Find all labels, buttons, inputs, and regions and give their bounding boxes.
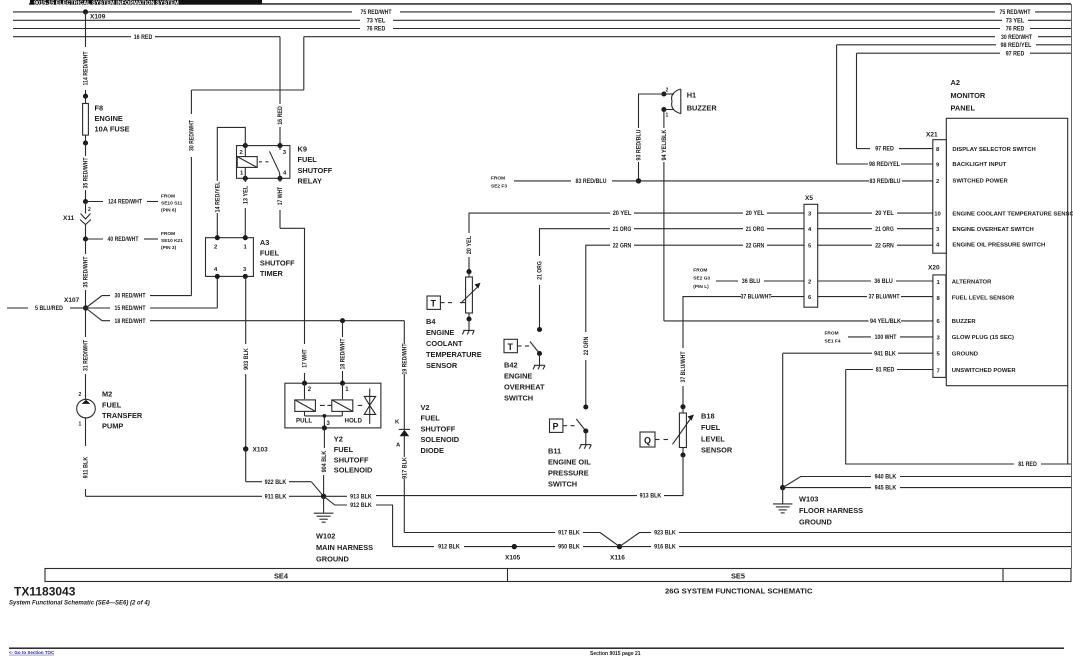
svg-text:DISPLAY SELECTOR SWITCH: DISPLAY SELECTOR SWITCH	[952, 147, 1035, 153]
svg-text:SE2 G3: SE2 G3	[693, 276, 710, 282]
junction 18 RED/WHT drop to Y2 pin 1	[340, 318, 347, 383]
svg-text:20 YEL: 20 YEL	[613, 211, 632, 217]
svg-text:X20: X20	[928, 265, 940, 272]
wire 97 RED (bus line 6)	[857, 51, 1072, 57]
svg-text:SE10 S11: SE10 S11	[161, 201, 183, 207]
wire 75 RED/WHT (bus line 1)	[13, 10, 1071, 16]
svg-text:DIODE: DIODE	[421, 446, 444, 455]
svg-text:TEMPERATURE: TEMPERATURE	[426, 350, 482, 359]
wire 22 GRN (B11 to X5 pin 5 to X21 pin 4)	[584, 243, 933, 407]
W103 label	[799, 495, 863, 527]
monitor panel A2 box	[946, 78, 1067, 386]
svg-text:13 YEL: 13 YEL	[244, 185, 250, 204]
K9 label	[298, 145, 333, 186]
M2 label	[102, 390, 143, 431]
svg-text:2: 2	[666, 88, 669, 94]
sensor B4	[427, 269, 481, 334]
svg-text:911 BLK: 911 BLK	[265, 494, 287, 500]
W102 label	[316, 532, 373, 564]
wire 114 RED/WHT (X109 down to fuse F8)	[84, 12, 90, 96]
svg-text:SENSOR: SENSOR	[701, 446, 733, 455]
svg-text:<- Go to Section TOC: <- Go to Section TOC	[9, 650, 55, 655]
svg-text:B18: B18	[701, 412, 715, 421]
wire 94 YEL/BLK (H1 pin 1 to X20 pin 6)	[662, 110, 933, 326]
svg-text:SE5: SE5	[731, 572, 745, 581]
svg-text:FUEL: FUEL	[298, 155, 318, 164]
svg-text:912 BLK: 912 BLK	[438, 545, 460, 551]
svg-text:911 BLK: 911 BLK	[84, 456, 90, 478]
svg-text:MONITOR: MONITOR	[951, 91, 986, 100]
junction 124 RED/WHT	[83, 194, 183, 214]
svg-text:GROUND: GROUND	[799, 517, 833, 526]
FROM SE1 F4 note	[825, 330, 841, 344]
svg-text:B11: B11	[548, 447, 561, 456]
ground W102	[314, 494, 334, 523]
H1 label	[687, 91, 718, 113]
wire 16 RED (bus line 4 left segment, drops to K9 pin 3)	[13, 35, 280, 41]
svg-text:P: P	[553, 422, 559, 432]
svg-text:922 BLK: 922 BLK	[265, 480, 287, 486]
svg-text:98 RED/YEL: 98 RED/YEL	[869, 162, 900, 168]
svg-text:FROM: FROM	[161, 194, 175, 200]
svg-text:17 WHT: 17 WHT	[278, 186, 284, 205]
relay K9	[237, 143, 290, 181]
svg-text:2: 2	[79, 392, 82, 398]
pump M2	[77, 392, 96, 428]
wire 30 RED/WHT (bus line 4 right segment)	[304, 35, 1071, 41]
wire 941 BLK (X20 pin 5 to W103)	[783, 351, 933, 487]
svg-text:26G SYSTEM FUNCTIONAL SCHEMATI: 26G SYSTEM FUNCTIONAL SCHEMATIC	[665, 587, 813, 596]
svg-text:PRESSURE: PRESSURE	[548, 469, 589, 478]
diode V2	[395, 420, 410, 449]
svg-text:913 BLK: 913 BLK	[350, 494, 372, 500]
footer rule	[9, 647, 1064, 649]
svg-text:15 RED/WHT: 15 RED/WHT	[115, 306, 146, 312]
svg-text:FUEL: FUEL	[102, 400, 122, 409]
B18 label	[701, 412, 733, 455]
wire 16 RED (bus down to K9 pin 3)	[278, 37, 284, 146]
svg-text:FUEL: FUEL	[421, 414, 441, 423]
svg-text:System Functional Schematic (S: System Functional Schematic (SE4—SE6) (2…	[9, 601, 150, 607]
svg-text:941 BLK: 941 BLK	[874, 351, 896, 357]
svg-text:21 ORG: 21 ORG	[538, 261, 544, 280]
wire 5 BLU/RED (left entry to X107)	[7, 306, 86, 312]
svg-text:76 RED: 76 RED	[367, 27, 386, 33]
svg-text:ENGINE COOLANT TEMPERATURE SEN: ENGINE COOLANT TEMPERATURE SENSOR	[952, 211, 1073, 217]
svg-text:UNSWITCHED POWER: UNSWITCHED POWER	[952, 368, 1017, 374]
svg-text:X116: X116	[610, 555, 625, 562]
wire 35 RED/WHT (fuse to X11)	[84, 143, 90, 202]
svg-text:T: T	[508, 342, 514, 352]
svg-text:37 BLU/WHT: 37 BLU/WHT	[741, 295, 772, 301]
wire 20 YEL (B4 to X5 pin 3 to X21 pin 10)	[467, 211, 933, 272]
svg-text:B42: B42	[504, 361, 518, 370]
svg-text:X5: X5	[805, 195, 813, 202]
wire 917 BLK (diode to X116 line)	[403, 436, 601, 536]
node X116	[600, 533, 640, 562]
svg-text:T: T	[431, 299, 437, 309]
svg-text:M2: M2	[102, 390, 112, 399]
svg-text:37 BLU/WHT: 37 BLU/WHT	[869, 295, 900, 301]
wire 98 RED/YEL (bus line 5)	[837, 43, 1071, 49]
svg-text:923 BLK: 923 BLK	[654, 531, 676, 537]
svg-text:30 RED/WHT: 30 RED/WHT	[190, 120, 196, 151]
svg-text:LEVEL: LEVEL	[701, 434, 725, 443]
svg-text:124 RED/WHT: 124 RED/WHT	[108, 200, 142, 206]
svg-text:(PIN 6): (PIN 6)	[161, 208, 177, 214]
Y2 PULL coil	[295, 400, 316, 412]
svg-text:SHUTOFF: SHUTOFF	[298, 166, 333, 175]
svg-text:OVERHEAT: OVERHEAT	[504, 383, 545, 392]
svg-text:H1: H1	[687, 91, 696, 100]
wire 923 BLK (X116 up right)	[640, 531, 1072, 537]
wire 97 RED (bus to X21 pin 8)	[857, 53, 933, 153]
svg-text:FROM: FROM	[825, 330, 839, 336]
A3 label	[260, 238, 295, 278]
wire 13 YEL (K9 pin 1 to A3 pin 1)	[244, 178, 250, 237]
ground W103	[773, 485, 792, 513]
connector X21	[926, 132, 946, 254]
svg-text:SOLENOID: SOLENOID	[421, 435, 460, 444]
svg-text:9015-15 ELECTRICAL SYSTEM INFO: 9015-15 ELECTRICAL SYSTEM INFORMATION SY…	[34, 0, 179, 6]
svg-text:PANEL: PANEL	[951, 104, 976, 113]
svg-text:SWITCH: SWITCH	[548, 480, 577, 489]
wire 81 RED (X20 pin 7 to right edge)	[846, 368, 1071, 469]
V2 label	[421, 403, 460, 455]
fuse F8 10A	[83, 94, 130, 146]
wire 18 RED/WHT (X107 to Y2/V2)	[86, 308, 405, 325]
svg-text:2: 2	[88, 207, 91, 213]
svg-text:114 RED/WHT: 114 RED/WHT	[84, 51, 90, 85]
wire 35 RED/WHT (X11 to X107)	[84, 239, 90, 308]
svg-text:1: 1	[79, 422, 82, 428]
svg-text:GROUND: GROUND	[316, 554, 350, 563]
svg-text:SOLENOID: SOLENOID	[334, 466, 373, 475]
svg-text:83 RED/BLU: 83 RED/BLU	[576, 179, 607, 185]
wire 98 RED/YEL (bus to X21 pin 9)	[837, 45, 933, 168]
svg-text:22 GRN: 22 GRN	[875, 243, 894, 249]
node X103	[243, 446, 268, 453]
wire 37 BLU/WHT (B18 to X5 pin 6 to X20 pin 8)	[681, 295, 933, 407]
connector X11	[63, 202, 91, 240]
wire 19 RED/WHT (down to diode V2)	[403, 321, 409, 430]
wire 904 BLK (Y2 pin 3 to W102 junction)	[322, 428, 328, 496]
svg-text:917 BLK: 917 BLK	[558, 531, 580, 537]
svg-text:10A FUSE: 10A FUSE	[95, 125, 130, 134]
svg-text:GROUND: GROUND	[952, 352, 978, 358]
solenoid Y2	[285, 381, 381, 431]
node X107	[64, 297, 88, 311]
svg-text:17 WHT: 17 WHT	[303, 349, 309, 368]
svg-text:94 YEL/BLK: 94 YEL/BLK	[662, 129, 668, 161]
svg-text:ENGINE: ENGINE	[95, 114, 123, 123]
svg-text:917 BLK: 917 BLK	[403, 457, 409, 479]
svg-text:Section 9015 page 21: Section 9015 page 21	[590, 651, 641, 657]
svg-text:76 RED: 76 RED	[1006, 27, 1025, 33]
wire 30 RED/WHT (X107 up to bus)	[86, 37, 304, 308]
B11 label	[548, 447, 591, 489]
svg-text:A3: A3	[260, 238, 269, 247]
switch B11	[550, 404, 592, 448]
svg-text:TRANSFER: TRANSFER	[102, 411, 143, 420]
Y2 dashes	[320, 404, 325, 406]
FROM SE2 G3 note	[693, 268, 710, 290]
svg-text:X11: X11	[63, 215, 75, 222]
svg-text:36 BLU: 36 BLU	[742, 279, 761, 285]
svg-text:X103: X103	[253, 447, 269, 454]
svg-text:SWITCH: SWITCH	[504, 394, 533, 403]
svg-text:73 YEL: 73 YEL	[367, 18, 386, 24]
svg-text:35 RED/WHT: 35 RED/WHT	[84, 256, 90, 287]
Y2 valve symbol	[364, 396, 375, 414]
svg-text:Q: Q	[644, 436, 651, 446]
svg-text:100 WHT: 100 WHT	[875, 335, 897, 341]
svg-text:98 RED/YEL: 98 RED/YEL	[1001, 43, 1032, 49]
wire 903 BLK (A3 pin 3 down to X103)	[244, 276, 250, 449]
wire 36 BLU (SE2 G3 to X5 pin 2 to X20 pin 1)	[716, 279, 933, 285]
svg-text:904 BLK: 904 BLK	[322, 450, 328, 472]
X20 pin function labels	[952, 280, 1017, 374]
svg-text:SE2 F3: SE2 F3	[491, 184, 507, 190]
svg-text:83 RED/BLU: 83 RED/BLU	[870, 179, 901, 185]
switch B42	[504, 327, 545, 369]
wire 31 RED/WHT (X107 down to M2)	[84, 308, 90, 400]
wire 945 BLK (W103 to right edge)	[783, 486, 1071, 492]
svg-text:FUEL: FUEL	[701, 423, 721, 432]
wire 93 RED/BLU (H1 pin 2 to 83 RED/BLU junction)	[636, 94, 664, 184]
svg-text:20 YEL: 20 YEL	[875, 211, 894, 217]
connector X5	[804, 195, 818, 307]
svg-text:ENGINE OIL: ENGINE OIL	[548, 458, 591, 467]
svg-text:97 RED: 97 RED	[1006, 51, 1025, 57]
svg-text:950 BLK: 950 BLK	[558, 545, 580, 551]
svg-text:FUEL LEVEL SENSOR: FUEL LEVEL SENSOR	[952, 296, 1015, 302]
svg-text:A: A	[396, 443, 401, 449]
svg-text:FUEL: FUEL	[334, 445, 354, 454]
svg-text:94 YEL/BLK: 94 YEL/BLK	[870, 319, 902, 325]
svg-text:16 RED: 16 RED	[134, 35, 153, 41]
svg-text:GLOW PLUG (15 SEC): GLOW PLUG (15 SEC)	[952, 335, 1014, 341]
svg-text:30 RED/WHT: 30 RED/WHT	[1001, 35, 1032, 41]
svg-text:TIMER: TIMER	[260, 269, 284, 278]
svg-text:SE10 K21: SE10 K21	[161, 238, 183, 244]
node X105	[505, 544, 521, 562]
svg-text:14 RED/YEL: 14 RED/YEL	[216, 181, 222, 212]
svg-text:22 GRN: 22 GRN	[584, 337, 590, 356]
right page border	[1071, 4, 1073, 568]
svg-text:81 RED: 81 RED	[1018, 462, 1037, 468]
timer A3	[206, 235, 254, 279]
wire 15 RED/WHT (X107 to A3 pin 4)	[86, 276, 218, 312]
wire 73 YEL (bus line 2)	[13, 18, 1071, 24]
svg-text:81 RED: 81 RED	[876, 368, 895, 374]
svg-text:SHUTOFF: SHUTOFF	[334, 455, 369, 464]
Y2 label	[334, 435, 373, 475]
svg-text:903 BLK: 903 BLK	[244, 348, 250, 370]
wire 76 RED (bus line 3)	[13, 27, 1071, 33]
svg-text:BUZZER: BUZZER	[687, 103, 718, 112]
svg-text:FLOOR HARNESS: FLOOR HARNESS	[799, 506, 863, 515]
header bar	[29, 0, 1071, 6]
svg-text:SHUTOFF: SHUTOFF	[421, 424, 456, 433]
svg-text:93 RED/BLU: 93 RED/BLU	[637, 130, 643, 161]
svg-text:PUMP: PUMP	[102, 422, 123, 431]
svg-text:SWITCHED POWER: SWITCHED POWER	[952, 179, 1008, 185]
svg-text:PULL: PULL	[296, 418, 312, 425]
svg-text:BUZZER: BUZZER	[952, 319, 977, 325]
wire 911 BLK (M2 to W102 junction)	[84, 418, 324, 501]
svg-text:W103: W103	[799, 495, 818, 504]
svg-text:31 RED/WHT: 31 RED/WHT	[84, 340, 90, 371]
svg-text:Y2: Y2	[334, 435, 343, 444]
svg-text:36 BLU: 36 BLU	[874, 279, 893, 285]
wire 913 BLK (W102 junction to B18)	[324, 494, 683, 501]
svg-text:ALTERNATOR: ALTERNATOR	[952, 280, 992, 286]
svg-text:(PIN 3): (PIN 3)	[161, 245, 177, 251]
svg-text:912 BLK: 912 BLK	[350, 503, 372, 509]
wire 21 ORG (B42 to X5 pin 4 to X21 pin 3)	[538, 227, 933, 330]
svg-text:97 RED: 97 RED	[875, 147, 894, 153]
svg-text:ENGINE OIL PRESSURE SWITCH: ENGINE OIL PRESSURE SWITCH	[952, 242, 1045, 248]
svg-text:BACKLIGHT INPUT: BACKLIGHT INPUT	[952, 162, 1006, 168]
SE4/SE5 section bar	[45, 569, 1071, 582]
sensor B18	[640, 404, 694, 495]
wire at monitor box lower right corner	[1067, 386, 1069, 464]
svg-text:940 BLK: 940 BLK	[875, 475, 897, 481]
connector X20	[928, 265, 946, 378]
svg-text:FROM: FROM	[491, 175, 505, 181]
wire 950 BLK (X105 to X116)	[514, 545, 619, 551]
B42 label	[504, 361, 545, 403]
svg-text:X109: X109	[90, 14, 106, 21]
svg-text:30 RED/WHT: 30 RED/WHT	[115, 294, 146, 300]
wire 17 WHT (K9 pin 4 to Y2 pin 2)	[278, 178, 309, 383]
svg-text:A2: A2	[951, 78, 960, 87]
svg-text:(PIN L): (PIN L)	[693, 284, 709, 290]
svg-text:MAIN HARNESS: MAIN HARNESS	[316, 543, 373, 552]
svg-text:40 RED/WHT: 40 RED/WHT	[108, 237, 139, 243]
Y2 bottom bus and pin 3	[304, 411, 306, 416]
svg-text:ENGINE: ENGINE	[504, 372, 532, 381]
svg-text:73 YEL: 73 YEL	[1006, 18, 1025, 24]
svg-text:SENSOR: SENSOR	[426, 361, 458, 370]
svg-text:20 YEL: 20 YEL	[746, 211, 765, 217]
svg-text:18 RED/WHT: 18 RED/WHT	[115, 319, 146, 325]
svg-text:X105: X105	[505, 555, 521, 562]
buzzer H1	[661, 88, 680, 119]
svg-text:RELAY: RELAY	[298, 177, 322, 186]
svg-text:37 BLU/WHT: 37 BLU/WHT	[681, 351, 687, 382]
svg-text:SE4: SE4	[274, 572, 289, 581]
svg-text:21 ORG: 21 ORG	[613, 227, 632, 233]
svg-text:TX1183043: TX1183043	[14, 585, 76, 599]
Y2 HOLD coil	[332, 400, 353, 412]
svg-text:B4: B4	[426, 317, 436, 326]
svg-text:75 RED/WHT: 75 RED/WHT	[361, 10, 392, 16]
svg-text:FUEL: FUEL	[260, 248, 280, 257]
svg-text:FROM: FROM	[161, 231, 175, 237]
wire 100 WHT (SE1 F4 to X20 pin 3)	[848, 335, 933, 341]
B4 label	[426, 317, 482, 370]
svg-text:X107: X107	[64, 297, 80, 304]
svg-text:18 RED/WHT: 18 RED/WHT	[341, 338, 347, 369]
svg-text:10: 10	[934, 212, 941, 218]
svg-text:ENGINE OVERHEAT SWITCH: ENGINE OVERHEAT SWITCH	[952, 227, 1033, 233]
svg-text:22 GRN: 22 GRN	[613, 243, 632, 249]
wire 916 BLK (X116 right)	[620, 545, 1072, 551]
svg-text:35 RED/WHT: 35 RED/WHT	[84, 157, 90, 188]
svg-text:FROM: FROM	[693, 268, 707, 274]
svg-text:COOLANT: COOLANT	[426, 339, 463, 348]
wire 83 RED/BLU (FROM SE2 F3 to X21 pin 2)	[491, 175, 933, 189]
svg-text:22 GRN: 22 GRN	[746, 243, 765, 249]
svg-text:75 RED/WHT: 75 RED/WHT	[1000, 10, 1031, 16]
svg-text:16 RED: 16 RED	[278, 106, 284, 125]
X21 pin function labels	[952, 147, 1073, 249]
svg-text:21 ORG: 21 ORG	[746, 227, 765, 233]
svg-text:19 RED/WHT: 19 RED/WHT	[403, 343, 409, 374]
wire 14 RED/YEL (K9 pin 2 to A3 pin 2)	[216, 127, 246, 237]
svg-text:5 BLU/RED: 5 BLU/RED	[35, 306, 63, 312]
svg-text:20 YEL: 20 YEL	[467, 235, 473, 254]
wire 912 BLK (W102 junction to X105 line)	[324, 496, 515, 550]
svg-text:ENGINE: ENGINE	[426, 328, 454, 337]
svg-text:V2: V2	[421, 403, 430, 412]
svg-text:W102: W102	[316, 532, 335, 541]
svg-text:F8: F8	[95, 103, 104, 112]
svg-text:X21: X21	[926, 132, 938, 139]
svg-text:K: K	[395, 420, 400, 426]
node X109	[83, 9, 106, 20]
svg-text:945 BLK: 945 BLK	[875, 486, 897, 492]
svg-text:K9: K9	[298, 145, 307, 154]
svg-text:1: 1	[666, 113, 669, 119]
wire 922 BLK (X103 to W102 junction)	[246, 449, 324, 496]
svg-text:SHUTOFF: SHUTOFF	[260, 259, 295, 268]
svg-text:916 BLK: 916 BLK	[654, 545, 676, 551]
svg-text:21 ORG: 21 ORG	[875, 227, 894, 233]
svg-text:SE1 F4: SE1 F4	[825, 339, 841, 345]
svg-text:913 BLK: 913 BLK	[640, 494, 662, 500]
svg-text:HOLD: HOLD	[345, 418, 363, 425]
wire 940 BLK (W103 to right edge)	[783, 475, 1071, 488]
junction 40 RED/WHT	[83, 231, 183, 251]
